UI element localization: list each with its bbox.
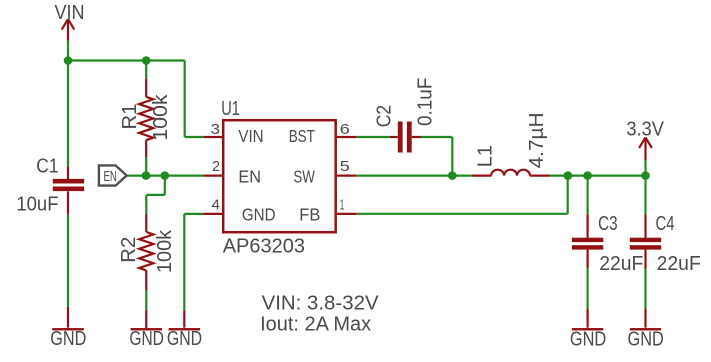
svg-text:C2: C2 [374, 105, 396, 127]
svg-text:22uF: 22uF [657, 253, 701, 275]
svg-text:6: 6 [340, 121, 350, 138]
svg-text:L1: L1 [475, 145, 497, 167]
svg-text:3: 3 [211, 121, 220, 138]
svg-text:R1: R1 [119, 104, 141, 130]
svg-text:GND: GND [628, 328, 664, 350]
svg-text:Iout: 2A Max: Iout: 2A Max [260, 314, 371, 336]
svg-text:1: 1 [340, 196, 345, 213]
svg-text:U1: U1 [221, 98, 240, 120]
svg-text:3.3V: 3.3V [626, 119, 664, 141]
svg-text:4.7µH: 4.7µH [526, 112, 548, 168]
svg-text:EN: EN [238, 167, 261, 187]
svg-text:5: 5 [340, 158, 350, 175]
svg-text:VIN: VIN [238, 126, 263, 146]
svg-text:10uF: 10uF [16, 194, 58, 216]
svg-text:C1: C1 [36, 156, 58, 178]
svg-text:R2: R2 [118, 237, 140, 263]
svg-text:SW: SW [293, 167, 315, 187]
svg-text:22uF: 22uF [599, 253, 643, 275]
svg-text:FB: FB [299, 204, 320, 224]
svg-text:4: 4 [212, 196, 221, 213]
svg-text:AP63203: AP63203 [223, 235, 305, 257]
svg-text:GND: GND [570, 328, 606, 350]
svg-text:GND: GND [242, 204, 276, 224]
svg-text:VIN: VIN [55, 2, 85, 24]
svg-text:GND: GND [167, 328, 202, 350]
svg-text:0.1uF: 0.1uF [415, 78, 437, 126]
svg-text:VIN: 3.8-32V: VIN: 3.8-32V [262, 292, 380, 314]
svg-text:C4: C4 [656, 213, 675, 235]
svg-text:GND: GND [129, 328, 164, 350]
svg-text:100k: 100k [150, 93, 172, 140]
svg-text:BST: BST [289, 126, 315, 146]
svg-text:EN: EN [104, 169, 117, 185]
svg-text:C3: C3 [598, 213, 618, 235]
svg-text:100k: 100k [154, 229, 176, 273]
svg-text:2: 2 [212, 158, 220, 175]
svg-text:GND: GND [50, 328, 86, 350]
